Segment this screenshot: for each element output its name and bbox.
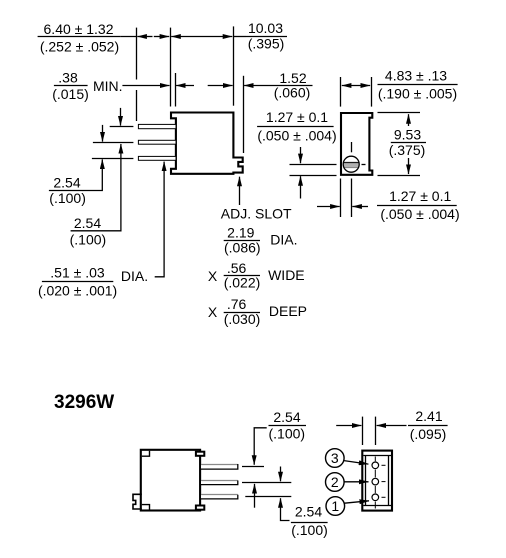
- arrow from ADJ. SLOT up to tab: [239, 177, 241, 205]
- extension line at tab right (x=243.4): [243, 76, 245, 153]
- extension line at body right (x=233.3): [233, 26, 235, 105]
- inner flange lines: [363, 455, 391, 457]
- dimension text 1.27 ± 0.1 / (.050 ± .004) left: [257, 109, 337, 143]
- svg-text:(.050 ± .004): (.050 ± .004): [380, 206, 459, 222]
- extension line at body left (x=170.2): [170, 28, 172, 107]
- svg-text:6.40 ± 1.32: 6.40 ± 1.32: [44, 21, 114, 37]
- extension lines 4.83: [340, 77, 342, 107]
- svg-text:(.030): (.030): [224, 311, 261, 327]
- dimension arrows 4.83: [342, 85, 370, 87]
- dimension text 10.03 / (.395): [246, 20, 287, 51]
- bottom body top view outline: [141, 450, 200, 511]
- dimension text 2.41 / (.095): [408, 408, 448, 442]
- arrow up to pin2 tick: [254, 484, 256, 508]
- svg-text:ADJ. SLOT: ADJ. SLOT: [221, 205, 292, 221]
- svg-text:.38: .38: [58, 70, 78, 86]
- svg-text:(.252 ± .052): (.252 ± .052): [40, 39, 119, 55]
- pin 1 (top lead): [138, 124, 176, 128]
- centerline dashes through pins: [375, 457, 385, 509]
- arrow right to body-left ext: [317, 206, 340, 208]
- corner notch bottom-left: [142, 505, 150, 510]
- svg-text:1: 1: [331, 498, 339, 514]
- svg-text:4.83 ± .13: 4.83 ± .13: [385, 68, 447, 84]
- svg-text:(.022): (.022): [224, 275, 261, 291]
- centerline dash above screw: [351, 142, 353, 152]
- svg-text:(.020 ± .001): (.020 ± .001): [38, 282, 117, 298]
- extension line at lead tips (x=136.3): [136, 28, 138, 80]
- svg-text:(.100): (.100): [269, 426, 306, 442]
- body side view outline: [171, 113, 243, 174]
- tick line pin1 center bottom: [242, 466, 264, 468]
- tick line pin3 center: [92, 158, 133, 160]
- dimension text .51 ± .03 / (.020 ± .001) DIA.: [38, 264, 148, 298]
- dimension text 9.53 / (.375): [389, 126, 426, 158]
- arrow up to body bottom line: [300, 176, 302, 198]
- svg-text:2.54: 2.54: [74, 215, 101, 231]
- pin hole 1: [372, 494, 379, 501]
- svg-text:2.54: 2.54: [295, 504, 322, 520]
- svg-text:1.52: 1.52: [279, 70, 306, 86]
- corner square top-right: [196, 452, 204, 456]
- dimension text 1.27 ± 0.1 / (.050 ± .004) bottom: [377, 188, 460, 222]
- dimension text 2.54 / (.100) lower with leader arrow up to pin2 tick: [70, 144, 121, 248]
- svg-text:DIA.: DIA.: [270, 232, 297, 248]
- svg-text:DIA.: DIA.: [121, 268, 148, 284]
- svg-text:DEEP: DEEP: [269, 303, 307, 319]
- svg-text:9.53: 9.53: [394, 126, 421, 142]
- extension lines 2.41: [362, 417, 364, 445]
- svg-text:(.060): (.060): [274, 85, 311, 101]
- centerline dash right of screw: [362, 164, 366, 166]
- extension lines slot center / body bottom: [290, 164, 337, 166]
- pin 2 (middle lead): [138, 140, 176, 144]
- arrow right to body edge ext: [336, 425, 361, 427]
- extension line at wall (x=175.45): [175, 73, 177, 107]
- svg-text:(.086): (.086): [224, 240, 261, 256]
- svg-text:2.54: 2.54: [273, 409, 300, 425]
- tick line pin3 center bottom: [245, 496, 291, 498]
- svg-text:(.190 ± .005): (.190 ± .005): [378, 86, 457, 102]
- dimension text 1.52 / (.060): [274, 70, 311, 101]
- screw slot grey band: [342, 163, 360, 168]
- arrow down to pin2 tick: [102, 125, 104, 142]
- arrow down to slot center line: [300, 147, 302, 163]
- svg-text:.51 ± .03: .51 ± .03: [50, 264, 105, 280]
- wire leader .38 with arrow to flange line: [122, 85, 169, 87]
- svg-text:.56: .56: [227, 260, 247, 276]
- pin number 1 callout: [326, 497, 369, 516]
- arrow down 9.53: [408, 158, 410, 174]
- wire leader down to pin1 tick: [254, 428, 267, 465]
- svg-text:(.100): (.100): [291, 522, 328, 538]
- dimension arrows 6.40 span: [137, 36, 152, 38]
- pin hole 3: [372, 462, 379, 469]
- tick line pin2 center: [93, 142, 133, 144]
- screw circle: [343, 156, 359, 172]
- bottom right view outline: [362, 451, 392, 511]
- svg-text:1.27 ± 0.1: 1.27 ± 0.1: [389, 188, 451, 204]
- svg-text:.76: .76: [227, 296, 247, 312]
- dimension text 2.54 / (.100) top with leader: [269, 409, 307, 442]
- arrow pointing left at wall line: [176, 85, 194, 87]
- dimension text 2.54 / (.100) bottom with leader up to pin3 tick: [281, 498, 328, 538]
- svg-text:(.100): (.100): [49, 190, 86, 206]
- svg-text:3: 3: [331, 450, 339, 466]
- svg-text:2.54: 2.54: [53, 175, 80, 191]
- svg-text:X: X: [208, 304, 218, 320]
- svg-text:WIDE: WIDE: [268, 267, 305, 283]
- pin 1 bottom view: [201, 464, 238, 469]
- wire leader from DIA. up to pin3 with arrow: [155, 162, 164, 277]
- pin 2 bottom view: [201, 481, 238, 485]
- svg-text:(.015): (.015): [52, 86, 89, 102]
- pin number 3 callout: [326, 449, 369, 468]
- arrow left to screw-center ext: [352, 206, 368, 208]
- svg-text:3296W: 3296W: [54, 392, 114, 413]
- extension lines bottom 1.27: [340, 179, 342, 218]
- svg-text:2: 2: [331, 474, 339, 490]
- tick line pin2 center bottom: [242, 482, 291, 484]
- pin number 2 callout: [326, 473, 369, 492]
- svg-text:MIN.: MIN.: [93, 78, 123, 94]
- svg-text:(.050 ± .004): (.050 ± .004): [257, 127, 336, 143]
- dimension arrows 10.03 span: [171, 36, 232, 38]
- pin 3 bottom view: [201, 495, 238, 499]
- svg-text:(.100): (.100): [70, 232, 107, 248]
- wire leader from 6.40 fraction to extension line: [120, 36, 136, 38]
- svg-text:(.395): (.395): [248, 36, 285, 52]
- svg-text:10.03: 10.03: [248, 20, 283, 36]
- svg-text:1.27 ± 0.1: 1.27 ± 0.1: [266, 109, 328, 125]
- adjustment tab left: [133, 494, 142, 509]
- dimension text 6.40 ± 1.32 / (.252 ± .052): [38, 21, 121, 55]
- pin 3 (bottom lead): [138, 156, 176, 160]
- svg-text:X: X: [208, 268, 218, 284]
- dimension text X .76 / (.030) DEEP: [208, 296, 307, 327]
- dimension text .38 / (.015) MIN.: [52, 70, 122, 102]
- extension lines 9.53: [378, 112, 421, 114]
- arrow up 9.53: [408, 114, 410, 126]
- corner notch top-left: [142, 451, 150, 456]
- dimension text 2.54 / (.100) upper with leader arrow up to pin3 tick: [49, 159, 102, 206]
- dimension text X .56 / (.022) WIDE: [208, 260, 305, 291]
- arrow left to pin center ext: [377, 425, 407, 427]
- dimension text 2.19 / (.086) DIA.: [224, 224, 298, 255]
- svg-text:2.19: 2.19: [227, 224, 254, 240]
- svg-text:2.41: 2.41: [415, 408, 442, 424]
- front view body outline: [341, 113, 372, 175]
- dimension text 4.83 ± .13 / (.190 ± .005): [378, 68, 458, 102]
- arrow down to pin1 tick: [120, 108, 122, 126]
- svg-text:(.095): (.095): [410, 426, 447, 442]
- svg-text:(.375): (.375): [389, 142, 426, 158]
- dimension arrows 1.52: [208, 85, 233, 87]
- corner square bottom-right: [196, 506, 204, 510]
- wire leader to 10.03 fraction: [233, 36, 246, 38]
- tick line pin1 center: [110, 126, 134, 128]
- pin hole 2: [372, 478, 379, 485]
- arrow down to pin2 tick: [280, 467, 282, 482]
